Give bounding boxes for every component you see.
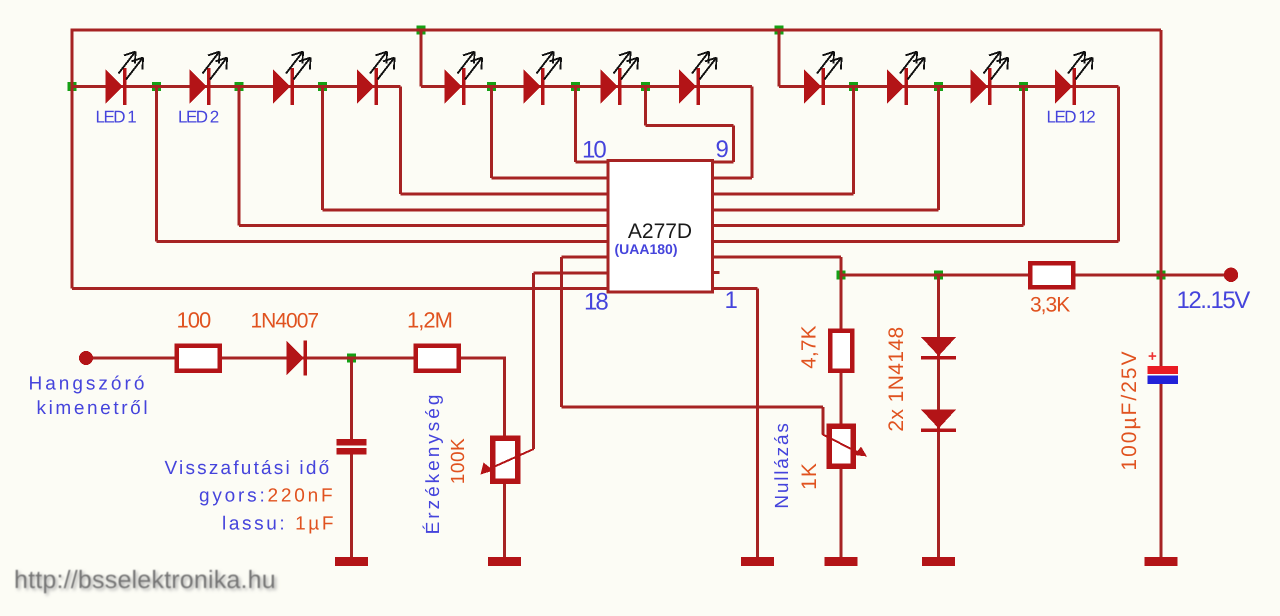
svg-text:100: 100 bbox=[177, 308, 211, 333]
svg-text:4,7K: 4,7K bbox=[798, 325, 821, 368]
svg-text:A277D: A277D bbox=[628, 220, 692, 243]
svg-text:gyors:220nF: gyors:220nF bbox=[199, 486, 335, 507]
svg-text:(UAA180): (UAA180) bbox=[614, 241, 677, 257]
svg-text:+: + bbox=[1148, 348, 1157, 365]
svg-text:lassu: 1µF: lassu: 1µF bbox=[222, 514, 336, 535]
svg-text:100K: 100K bbox=[448, 438, 469, 484]
svg-text:LED 12: LED 12 bbox=[1047, 108, 1096, 127]
svg-text:10: 10 bbox=[582, 137, 606, 164]
svg-text:3,3K: 3,3K bbox=[1030, 294, 1070, 317]
svg-text:kimenetről: kimenetről bbox=[37, 398, 151, 419]
svg-text:1: 1 bbox=[725, 287, 738, 314]
svg-text:9: 9 bbox=[716, 136, 729, 163]
svg-text:LED 2: LED 2 bbox=[178, 108, 219, 127]
svg-text:Érzékenység: Érzékenység bbox=[422, 392, 444, 535]
svg-text:LED 1: LED 1 bbox=[96, 108, 137, 127]
svg-text:Hangszóró: Hangszóró bbox=[29, 374, 148, 395]
svg-text:http://bsselektronika.hu: http://bsselektronika.hu bbox=[14, 566, 276, 594]
svg-text:100µF/25V: 100µF/25V bbox=[1118, 349, 1141, 470]
svg-text:Visszafutási idő: Visszafutási idő bbox=[165, 458, 332, 479]
svg-text:1N4007: 1N4007 bbox=[251, 310, 319, 333]
svg-text:Nullázás: Nullázás bbox=[772, 421, 793, 508]
svg-text:18: 18 bbox=[584, 289, 608, 316]
svg-text:12..15V: 12..15V bbox=[1177, 287, 1251, 314]
svg-text:2x 1N4148: 2x 1N4148 bbox=[885, 326, 908, 431]
svg-text:1,2M: 1,2M bbox=[407, 308, 452, 333]
svg-text:1K: 1K bbox=[798, 462, 821, 490]
